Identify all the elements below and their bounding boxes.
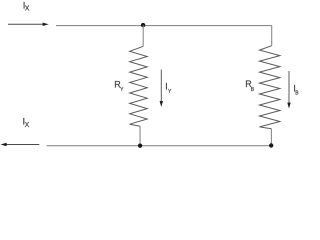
wire bottom rail (47, 145, 272, 147)
current arrow I_X (top, pointing right) (8, 23, 49, 26)
wire left branch top lead (142, 25, 144, 46)
svg-text:Y: Y (120, 87, 124, 93)
label I_B (293, 84, 299, 97)
label R_B (245, 79, 255, 93)
wire right branch top lead (271, 25, 273, 45)
svg-text:X: X (25, 6, 30, 13)
wire top rail (56, 25, 272, 27)
current arrow I_Y (down) (160, 70, 163, 107)
svg-text:X: X (25, 122, 30, 129)
svg-text:B: B (251, 87, 255, 93)
node bottom left junction (138, 144, 142, 148)
label I_X (top left) (23, 1, 30, 13)
wire left branch bottom lead (139, 126, 141, 146)
resistor R_Y (130, 46, 148, 126)
label I_X (bottom left) (23, 117, 30, 130)
svg-text:Y: Y (168, 89, 172, 95)
current arrow I_X (bottom, pointing left) (1, 143, 40, 146)
label R_Y (114, 80, 124, 94)
wire right branch bottom lead (270, 129, 272, 146)
current arrow I_B (down) (287, 71, 290, 109)
node top junction (141, 23, 145, 27)
node bottom right junction (269, 143, 273, 147)
label I_Y (165, 82, 172, 95)
svg-text:B: B (295, 90, 299, 96)
resistor R_B (260, 46, 280, 129)
